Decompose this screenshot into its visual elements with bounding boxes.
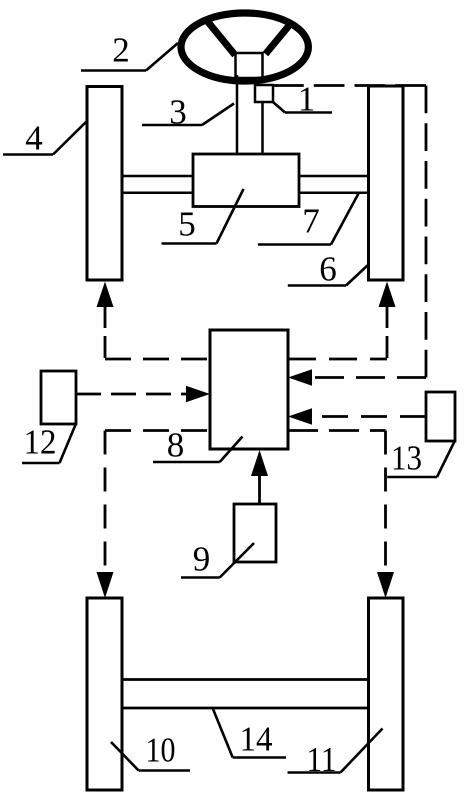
wire dashed sensor line right vertical	[425, 86, 428, 378]
wire dashed rear-right horizontal	[288, 429, 386, 432]
wire dashed front-right stem	[386, 306, 389, 359]
arrowhead into ECU right lower	[288, 408, 312, 425]
wire steering column left line	[236, 75, 239, 154]
svg-text:10: 10	[146, 731, 176, 770]
arrowhead down into rear left wheel	[97, 572, 114, 598]
sensor box 13	[426, 392, 455, 441]
sensor box 9	[234, 504, 276, 562]
ECU box 8	[210, 330, 288, 449]
wire steering column right line	[261, 100, 264, 154]
svg-text:12: 12	[24, 423, 57, 462]
wire dashed 13 to ECU	[312, 415, 426, 418]
tie rod left upper	[122, 175, 193, 178]
rear axle upper line 14	[122, 678, 369, 681]
tie rod left lower	[122, 192, 193, 195]
rear left wheel 10	[87, 598, 122, 790]
rear right wheel 11	[369, 598, 404, 790]
wire dashed front-left horizontal	[105, 358, 210, 361]
rear axle lower line	[122, 707, 369, 710]
front right wheel 6	[369, 86, 404, 280]
steering column hub	[236, 53, 263, 78]
wire 9 to ECU stem	[258, 476, 261, 504]
svg-text:9: 9	[193, 540, 211, 579]
arrowhead down into rear right wheel	[377, 572, 394, 598]
front left wheel 4	[87, 87, 122, 281]
sensor box 1	[255, 85, 273, 102]
svg-text:4: 4	[25, 119, 43, 158]
steering gear box 5	[193, 154, 299, 207]
tie rod right upper	[299, 175, 369, 178]
tie rod right lower 7	[299, 192, 369, 195]
steering wheel left spoke	[206, 20, 235, 56]
svg-text:2: 2	[112, 31, 130, 70]
wire dashed rear-right vertical	[384, 431, 387, 573]
svg-text:6: 6	[319, 250, 337, 289]
arrowhead up into front right wheel	[379, 282, 396, 308]
svg-text:14: 14	[240, 720, 273, 759]
steering wheel right spoke	[266, 25, 290, 54]
steering wheel rim 2	[181, 13, 308, 81]
sensor box 12	[41, 371, 76, 424]
wire dashed front-left stem	[104, 306, 107, 359]
svg-text:8: 8	[167, 426, 185, 465]
svg-text:5: 5	[178, 205, 196, 244]
svg-text:13: 13	[391, 439, 422, 478]
wire dashed 12 to ECU	[76, 393, 186, 396]
svg-text:7: 7	[302, 202, 320, 241]
wire dashed sensor line top	[273, 84, 426, 87]
arrowhead into ECU left	[186, 386, 210, 403]
wire dashed sensor line into ECU	[312, 376, 426, 379]
arrowhead up into front left wheel	[97, 282, 114, 308]
wire dashed front-right horizontal	[288, 358, 387, 361]
wire dashed rear-left horizontal	[105, 429, 210, 432]
wire dashed rear-left vertical	[104, 431, 107, 573]
arrowhead up into ECU bottom	[251, 450, 268, 476]
arrowhead into ECU right upper	[288, 369, 312, 386]
